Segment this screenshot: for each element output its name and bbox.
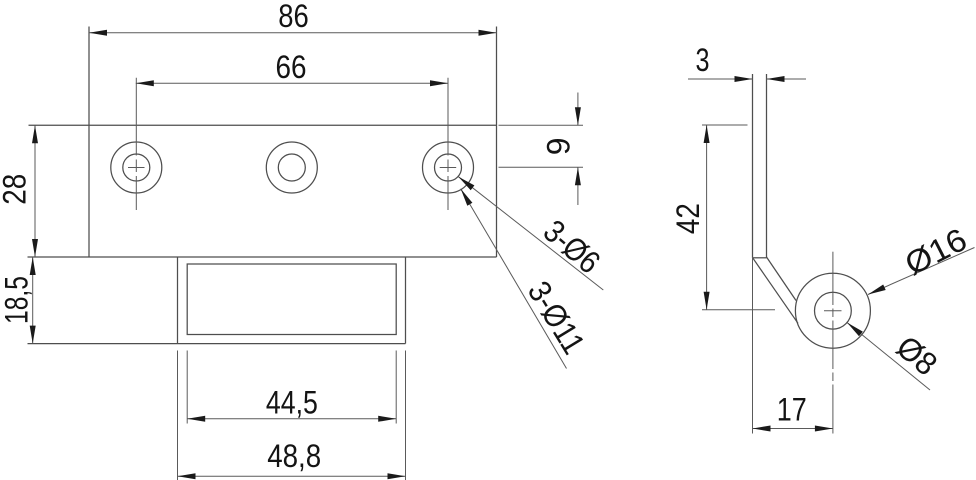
leader Ø8 arrowhead (847, 323, 863, 337)
dim 86 line (89, 32, 497, 34)
hole H1 centerline (66 extension) (135, 78, 137, 210)
dim 6 upper arrow tail (577, 93, 579, 126)
barrel inner circle Ø8 (815, 292, 852, 329)
side view bend cap line (753, 257, 767, 259)
dim 48,8 line (178, 475, 406, 477)
svg-text:42: 42 (670, 203, 706, 234)
plate front view top edge (with left extension) (29, 124, 497, 126)
dim 44,5 line (187, 418, 396, 420)
dim 3 right arrow tail (767, 78, 807, 80)
side view vertical plate left line (752, 74, 754, 258)
plate front view bottom edge (with left extension) (28, 256, 497, 258)
svg-text:17: 17 (777, 391, 807, 427)
svg-text:18,5: 18,5 (0, 276, 34, 324)
hole H2 inner circle (278, 154, 305, 181)
dim 17 line (753, 428, 833, 430)
side view outer angled line (753, 258, 798, 323)
dim 17 left arrowhead (753, 426, 771, 432)
dim 6 lower arrowhead (pointing up) (575, 167, 581, 185)
tongue inner rectangle (187, 264, 396, 335)
svg-text:28: 28 (0, 174, 33, 205)
dim 3 left arrowhead (pointing right) (735, 76, 753, 82)
hole H1 outer circle (111, 142, 162, 193)
svg-text:3: 3 (696, 42, 710, 78)
hole H1 center horizontal dash (128, 167, 145, 169)
tongue outer rectangle right edge (405, 257, 407, 344)
dim 6 lower extension line (499, 166, 584, 168)
leader line Ø8 (847, 323, 930, 391)
leader Ø16 arrowhead (868, 285, 886, 295)
dim 44,5 right arrowhead (378, 416, 396, 422)
dim 17 left extension (plate edge continued) (752, 258, 754, 434)
svg-text:6: 6 (540, 137, 576, 155)
dim 3 right arrowhead (pointing left) (767, 76, 785, 82)
hole H3 outer circle (423, 142, 474, 193)
dim 66 left arrowhead (136, 80, 154, 86)
barrel vertical centerline (832, 252, 834, 434)
dim 28 top arrowhead (32, 125, 38, 143)
dim 17 right arrowhead (815, 426, 833, 432)
dim 42 top arrowhead (704, 125, 710, 143)
dim 48,8 right extension (405, 351, 407, 480)
plate front view right edge (with 86 extension above) (496, 27, 498, 258)
hole H3 centerline (66 extension) (447, 78, 449, 210)
tongue outer rectangle bottom edge (with left extension) (28, 343, 406, 345)
dim 66 line (136, 82, 448, 84)
dim 6 lower arrow tail (577, 167, 579, 205)
leader 3-Ø6 arrowhead (458, 177, 474, 191)
dim 42 line (706, 125, 708, 310)
dim 86 right arrowhead (479, 30, 497, 36)
dim 44,5 right extension (395, 351, 397, 424)
svg-text:66: 66 (276, 49, 307, 85)
dim 18,5 top arrowhead (30, 257, 36, 275)
dim 42 top extension (702, 124, 748, 126)
dim 42 bottom arrowhead (704, 292, 710, 310)
side view inner angled line (767, 257, 797, 301)
barrel outer circle Ø16 (795, 273, 870, 348)
dim 18,5 line (32, 257, 34, 344)
dim 48,8 right arrowhead (388, 473, 406, 479)
dim 48,8 left arrowhead (178, 473, 196, 479)
dim 28 line (34, 125, 36, 257)
hole H1 inner circle (123, 154, 150, 181)
svg-text:48,8: 48,8 (267, 438, 321, 474)
dim 48,8 left extension (177, 351, 179, 480)
hole H3 inner circle (435, 154, 462, 181)
dim 6 upper extension line (499, 124, 584, 126)
svg-text:44,5: 44,5 (266, 385, 318, 421)
svg-text:86: 86 (278, 0, 309, 34)
dim 44,5 left extension (186, 351, 188, 424)
dim 28 bottom arrowhead (32, 239, 38, 257)
dim 6 upper arrowhead (pointing down) (575, 107, 581, 125)
dim 42 bottom extension (702, 309, 775, 311)
hole H3 center horizontal dash (440, 167, 457, 169)
leader line 3-Ø11 (461, 189, 567, 369)
plate front view left edge (with 86 extension above) (88, 27, 90, 258)
side view vertical plate right line (766, 74, 768, 258)
dim 66 right arrowhead (430, 80, 448, 86)
tongue outer rectangle left edge (177, 257, 179, 344)
dim 44,5 left arrowhead (187, 416, 205, 422)
leader line 3-Ø6 (458, 177, 603, 290)
dim 3 left arrow tail (688, 78, 753, 80)
hole H2 outer circle (266, 142, 317, 193)
leader 3-Ø11 arrowhead (461, 189, 473, 206)
dim 86 left arrowhead (89, 30, 107, 36)
dim 18,5 bottom arrowhead (30, 326, 36, 344)
leader line Ø16 (868, 248, 975, 295)
barrel horizontal center dash (824, 310, 842, 312)
